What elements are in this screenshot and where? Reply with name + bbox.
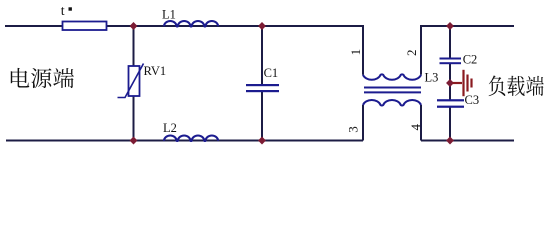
- svg-text:1: 1: [348, 49, 363, 56]
- svg-text:3: 3: [346, 126, 361, 133]
- svg-text:t: t: [61, 4, 65, 19]
- svg-text:C2: C2: [463, 53, 478, 67]
- svg-text:2: 2: [404, 50, 419, 57]
- svg-text:4: 4: [408, 124, 423, 131]
- svg-text:L1: L1: [162, 7, 176, 21]
- svg-text:L2: L2: [163, 121, 177, 135]
- svg-text:C1: C1: [264, 66, 279, 80]
- svg-text:RV1: RV1: [144, 64, 167, 78]
- svg-text:C3: C3: [465, 93, 480, 107]
- svg-text:L3: L3: [425, 71, 439, 85]
